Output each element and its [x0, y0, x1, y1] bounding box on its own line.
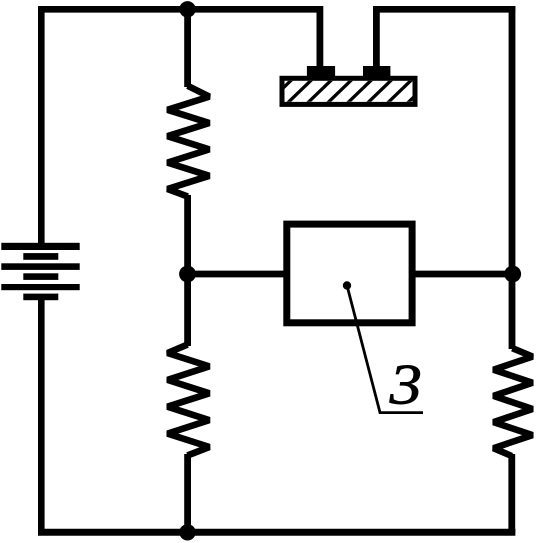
- wire: top horizontal right: [373, 6, 515, 13]
- battery GB1: long plate 3 (+): [1, 284, 79, 290]
- sensor element: right electrode terminal: [363, 66, 390, 79]
- resistor R2 (lower left zigzag): [168, 345, 210, 456]
- wire: sensor right terminal riser: [373, 9, 380, 67]
- sensor element: diagonal hatching: [266, 78, 434, 105]
- wire: right vertical rail (top corner to right resistor): [509, 6, 516, 349]
- wire: top horizontal left (battery + rail to sensor left lead): [38, 6, 320, 13]
- node: bottom junction: [179, 524, 195, 540]
- leader: reference dot inside block 3: [343, 281, 351, 289]
- sensor element: hatched body outline: [282, 78, 415, 104]
- wire: drop from top rail to sensor left terminal: [316, 6, 323, 67]
- leader line for label 3: [347, 286, 423, 413]
- node B: right middle junction: [504, 266, 521, 283]
- wire: middle branch from top junction to resistor R1: [184, 9, 191, 87]
- wire: resistor R2 to bottom rail: [184, 454, 191, 532]
- sensor element: left electrode terminal: [307, 66, 335, 79]
- wire: battery negative to bottom-left corner: [38, 300, 45, 532]
- battery GB1: short plate 1 (-): [23, 253, 58, 260]
- battery GB1: long plate 2 (+): [1, 263, 79, 270]
- wire: resistor R1 to node A: [184, 195, 191, 274]
- node: top junction at middle branch: [179, 1, 195, 17]
- resistor R3 (right zigzag): [494, 348, 533, 456]
- battery GB1: long plate 1 (+): [1, 243, 79, 250]
- wire: left vertical rail (top corner down to battery): [38, 6, 45, 243]
- battery GB1: short plate 2 (-): [23, 273, 58, 280]
- wire: resistor R3 to bottom rail: [508, 454, 515, 532]
- wire: node A to block 3 (middle horizontal left): [188, 271, 288, 278]
- node A: left middle junction: [179, 266, 196, 283]
- wire: bottom horizontal rail: [38, 529, 515, 536]
- resistor R1 (upper left zigzag): [168, 86, 210, 197]
- block 3 (amplifier unit): [287, 224, 412, 323]
- wire: node A down to resistor R2: [184, 274, 191, 346]
- wire: block 3 to right rail (middle horizontal right): [412, 271, 512, 278]
- battery GB1: short plate 3 (-): [23, 294, 58, 301]
- svg-text:3: 3: [389, 354, 422, 417]
